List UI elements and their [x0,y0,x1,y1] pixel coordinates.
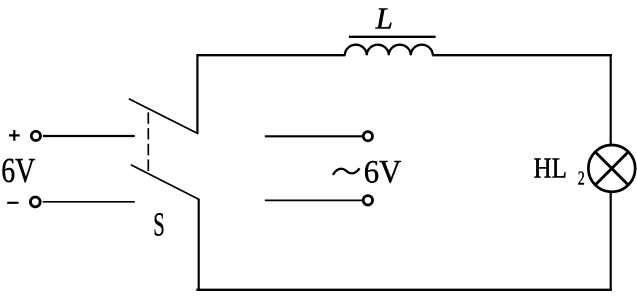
inductor L coil (4 humps) [345,45,433,56]
tilde of ~6V [333,168,360,175]
svg-text:S: S [153,206,165,243]
plus sign [9,130,20,141]
terminal circle minus [30,197,40,207]
wire left vertical upper (corner down to switch top blade pivot) [196,54,198,134]
wire middle bottom terminal [265,199,362,201]
lamp HL2 cross [595,152,628,185]
wire left vertical lower (switch bottom blade pivot down to bottom rail) [198,199,200,291]
lamp HL2 circle [588,145,635,192]
terminal circle plus [31,131,40,140]
wire top-left (top rail from left corner to inductor) [197,54,345,56]
wire from minus terminal to switch contact [43,201,135,203]
inductor L core bar [349,36,436,38]
svg-text:2: 2 [578,168,585,190]
wire top-right (top rail from inductor to right corner) [432,54,612,56]
svg-text:HL: HL [534,154,568,185]
minus sign [7,202,18,204]
wire bottom rail [196,289,612,291]
svg-text:6V: 6V [364,155,402,191]
wire right vertical lower (lamp down to bottom rail) [610,191,612,291]
wire middle top terminal [265,135,362,137]
switch S bottom blade [131,165,200,200]
terminal circle middle top [363,132,372,141]
svg-text:6V: 6V [1,152,35,190]
terminal circle middle bottom [363,196,372,205]
wire from plus terminal to switch contact [43,135,135,137]
switch gang dashed link [147,112,149,170]
wire right vertical upper (corner down to lamp) [610,54,612,146]
svg-text:L: L [375,1,393,36]
switch S top blade [129,99,199,134]
